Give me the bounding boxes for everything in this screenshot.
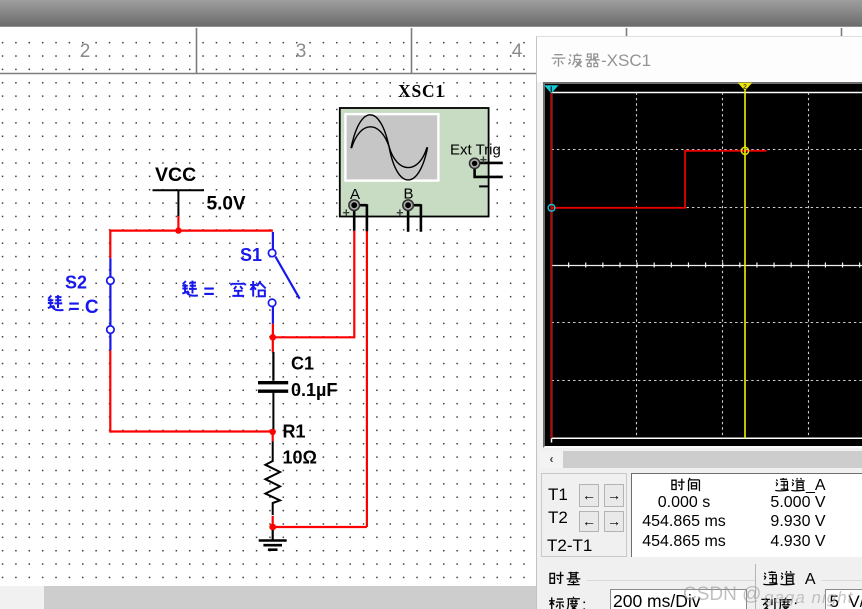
label XSC1 — [398, 81, 445, 101]
oscilloscope XSC1 icon body — [340, 108, 489, 217]
wire node to scope A+ — [273, 231, 355, 339]
graticule dashed horizontals — [552, 150, 862, 381]
label channel A — [350, 186, 360, 203]
svg-text:2: 2 — [743, 84, 747, 91]
ruler dividers — [197, 28, 842, 73]
wire ground node to A- — [273, 526, 367, 528]
left T1/T2 box — [541, 473, 627, 557]
wire top rail — [110, 230, 273, 232]
wire VCC-to-rail (red stub) — [177, 216, 179, 231]
svg-text:5.0V: 5.0V — [207, 193, 246, 214]
cursor 1 marker triangle — [544, 85, 558, 93]
terminal Ext Trig knob — [470, 158, 480, 168]
bottom groups — [548, 570, 582, 589]
power VCC symbol — [153, 190, 205, 216]
svg-text:+: + — [396, 206, 403, 220]
resistor R1 — [265, 441, 280, 515]
value 0.1uF — [291, 380, 337, 400]
junction node VCC/rail — [175, 227, 181, 233]
value 5.0V — [207, 193, 246, 214]
trace channel A — [552, 151, 767, 208]
wire bottom-left horizontal — [110, 430, 272, 432]
center axis with ticks — [552, 265, 862, 267]
svg-text:VCC: VCC — [155, 164, 196, 186]
svg-text:R1: R1 — [283, 422, 306, 442]
svg-text:Ext Trig: Ext Trig — [450, 142, 501, 159]
svg-text:=: = — [204, 282, 215, 303]
svg-text:10Ω: 10Ω — [283, 448, 317, 468]
T2 arrow buttons — [579, 511, 599, 532]
svg-text:0.1µF: 0.1µF — [291, 380, 337, 400]
T1 arrow buttons — [579, 484, 599, 507]
terminal A knob — [349, 200, 360, 211]
svg-text:3: 3 — [296, 41, 307, 62]
ground symbol — [259, 530, 287, 550]
value 10ohm — [283, 448, 317, 468]
label channel B — [404, 185, 414, 202]
trace start marker — [548, 204, 555, 211]
cursor 1 line — [551, 92, 553, 438]
svg-text:= C: = C — [69, 297, 99, 318]
graticule solid border lines — [552, 93, 862, 443]
pin B- — [413, 204, 421, 232]
vertical separator — [755, 564, 756, 609]
svg-text:XSC1: XSC1 — [398, 81, 445, 101]
bottom scroll strip — [0, 586, 862, 609]
wire S1 to node — [272, 324, 274, 338]
capacitor C1 — [258, 352, 288, 429]
wire scope A- vertical — [366, 231, 368, 527]
svg-text:C1: C1 — [291, 354, 314, 374]
label key = C (键 = C) — [48, 295, 99, 318]
svg-text:S1: S1 — [240, 245, 262, 265]
svg-text:4: 4 — [512, 41, 523, 62]
label VCC — [155, 164, 196, 186]
wire left branch lower — [109, 350, 111, 432]
svg-text:S2: S2 — [65, 272, 87, 292]
wire R1 bottom stub — [272, 516, 274, 527]
label key = space (键 = 空格) — [182, 280, 265, 303]
junction node C1-top — [270, 334, 277, 341]
label S2 — [65, 272, 87, 292]
XSC1 icon screen — [345, 114, 438, 181]
label R1 — [283, 422, 306, 442]
junction node ground — [269, 524, 276, 531]
pin Ext Trig + — [480, 153, 503, 167]
scope horizontal scrollbar — [540, 451, 862, 468]
label C1 — [291, 354, 314, 374]
top toolbar strip — [0, 0, 862, 27]
terminal B knob — [403, 200, 414, 211]
graticule dashed verticals — [637, 93, 809, 439]
scope display — [543, 82, 862, 448]
pin A- — [359, 204, 367, 231]
cursor 2 line — [744, 91, 746, 439]
switch S1 (open, key=space) — [273, 232, 300, 324]
values box — [631, 473, 862, 557]
wire R1 top stub — [272, 432, 274, 441]
label S1 — [240, 245, 262, 265]
wire C1 top stub — [272, 337, 274, 352]
junction node R1-top — [270, 429, 276, 435]
title bar — [537, 37, 862, 82]
pin A+ — [343, 206, 355, 231]
XSC1 icon sine waves — [351, 115, 428, 180]
cursor 2 trace marker — [741, 145, 748, 154]
header row — [670, 477, 702, 495]
svg-text:2: 2 — [80, 41, 91, 62]
svg-text:+: + — [480, 153, 487, 167]
label Ext Trig — [450, 142, 501, 159]
cursor 2 marker triangle — [738, 83, 752, 91]
pin B+ — [396, 206, 408, 232]
pin Ext Trig - — [475, 169, 503, 187]
wire left branch upper — [109, 230, 111, 259]
watermark — [683, 584, 761, 606]
switch S2 (closed, key=C) — [109, 258, 111, 350]
ruler bottom line — [0, 73, 862, 75]
svg-text:+: + — [343, 206, 350, 220]
